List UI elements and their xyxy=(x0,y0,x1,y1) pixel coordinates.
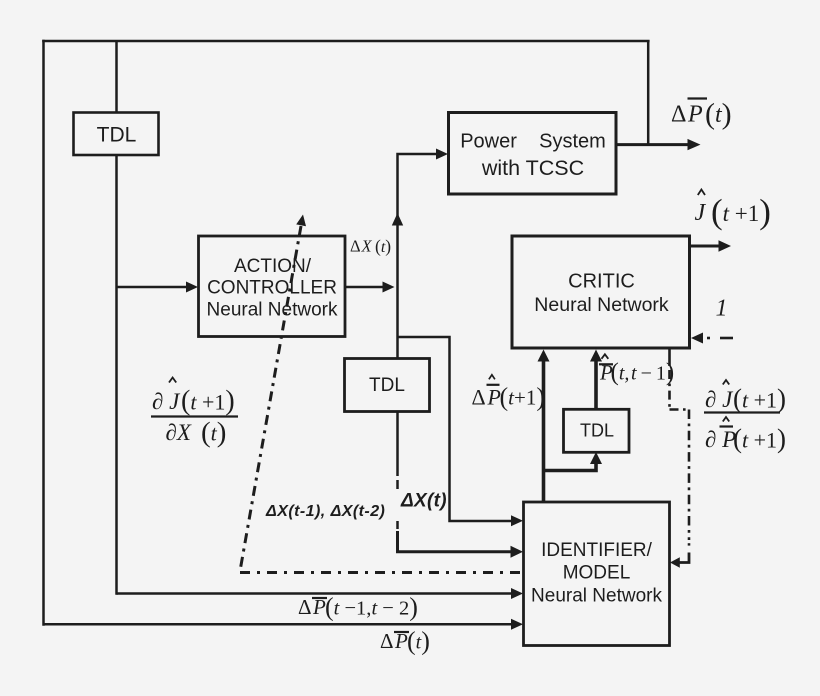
svg-text:(t −1,t − 2): (t −1,t − 2) xyxy=(325,593,418,622)
arrow into Power System xyxy=(436,149,448,160)
wire TDL2 output down (solid part) xyxy=(396,411,399,476)
arrow TDL3 output into CRITIC xyxy=(590,350,602,362)
wire TDL2 output dash b xyxy=(396,521,399,529)
svg-text:P: P xyxy=(687,102,703,128)
svg-text:(t +1): (t +1) xyxy=(733,384,786,414)
svg-text:J: J xyxy=(695,200,707,226)
wire inner-left vertical through TDL1 xyxy=(115,41,118,595)
wire DeltaP(t-1,t-2) horizontal to identifier xyxy=(117,592,515,595)
svg-text:Neural Network: Neural Network xyxy=(207,300,338,321)
wire identifier output to CRITIC xyxy=(542,354,546,502)
wire right feedback vertical xyxy=(647,41,650,145)
svg-text:(t): (t) xyxy=(705,98,732,131)
wire outer-left vertical xyxy=(42,40,45,626)
wire top feedback horizontal xyxy=(42,40,649,43)
arrowheads xyxy=(186,139,731,630)
svg-text:MODEL: MODEL xyxy=(563,563,631,584)
label J(t+1) top right xyxy=(695,190,771,232)
svg-text:(t, t − 1): (t, t − 1) xyxy=(611,359,675,386)
wire bottom DeltaP(t) horizontal to identifier xyxy=(44,623,515,626)
wire DeltaX(t) vertical riser to Power System xyxy=(398,154,440,359)
arrow into ACTION xyxy=(186,282,198,293)
arrow CRITIC output tip xyxy=(719,240,732,251)
block IDENTIFIER/MODEL Neural Network xyxy=(524,502,670,646)
svg-text:with TCSC: with TCSC xyxy=(481,156,584,180)
svg-text:CRITIC: CRITIC xyxy=(568,271,635,293)
arrow mid-riser up xyxy=(392,213,403,226)
svg-text:∂ J: ∂ J xyxy=(152,389,181,414)
arrow dash-dot into identifier right xyxy=(670,557,680,568)
arrow DeltaX(t) into identifier xyxy=(511,515,523,526)
block ACTION/CONTROLLER Neural Network xyxy=(199,236,346,337)
svg-text:∂X: ∂X xyxy=(166,420,192,445)
label DeltaX(t) at ACTION output xyxy=(350,236,391,256)
label dJ/dP fraction right xyxy=(704,380,786,454)
svg-text:TDL: TDL xyxy=(369,375,405,396)
svg-text:ΔX(t-1), ΔX(t-2): ΔX(t-1), ΔX(t-2) xyxy=(265,503,385,520)
arrow dash-dot into CRITIC right xyxy=(691,333,703,344)
wire dash-dot stub into CRITIC right xyxy=(707,337,733,340)
label P(t,t-1) estimate xyxy=(599,354,674,386)
svg-text:∂ P: ∂ P xyxy=(705,427,736,452)
svg-text:TDL: TDL xyxy=(97,124,137,147)
wire TDL2 output dash a xyxy=(396,480,399,489)
arrow dash-dot diagonal tip (up) xyxy=(296,215,306,227)
wire DeltaX(t) branch bypass to identifier xyxy=(398,337,515,521)
label DeltaP(t) bottom xyxy=(380,627,430,656)
wire Power System output xyxy=(616,143,691,146)
wire ACTION output xyxy=(345,286,383,289)
wire TDL3 output to CRITIC xyxy=(594,354,598,409)
svg-text:(t): (t) xyxy=(375,236,391,256)
svg-text:Power System: Power System xyxy=(460,131,606,153)
wire dash-dot backprop diagonal through ACTION xyxy=(240,226,523,573)
svg-text:Δ: Δ xyxy=(380,629,394,653)
arrow identifier output into CRITIC xyxy=(538,350,550,362)
arrow DeltaP(t) into identifier xyxy=(511,619,523,630)
svg-text:CONTROLLER: CONTROLLER xyxy=(207,278,337,299)
svg-text:ΔX(t): ΔX(t) xyxy=(400,491,447,512)
label DeltaP(t) top right xyxy=(671,98,732,131)
svg-text:(t): (t) xyxy=(201,417,226,449)
wire TDL2 output elbow to identifier xyxy=(398,531,514,552)
svg-text:∂ J: ∂ J xyxy=(705,387,734,412)
arrow TDL2 line into identifier xyxy=(511,546,524,558)
svg-text:(t +1): (t +1) xyxy=(733,424,786,454)
svg-text:TDL: TDL xyxy=(580,421,614,441)
arrow ACTION output xyxy=(383,282,395,293)
label DeltaP(t+1) estimate xyxy=(472,375,546,412)
svg-text:Δ: Δ xyxy=(472,384,486,409)
wire branch to TDL3 xyxy=(544,457,597,471)
block TDL1 xyxy=(74,113,159,156)
svg-text:Δ: Δ xyxy=(350,237,361,256)
arrow Power System output tip xyxy=(688,139,701,150)
label dJ/dX fraction left xyxy=(151,378,238,449)
svg-text:Δ: Δ xyxy=(298,595,312,619)
arrow DeltaP(t-1,t-2) into identifier xyxy=(511,588,523,599)
arrow into TDL3 bottom xyxy=(590,452,602,464)
wire input to ACTION network xyxy=(117,286,190,289)
svg-text:ACTION/: ACTION/ xyxy=(234,256,312,277)
svg-text:Neural Network: Neural Network xyxy=(531,586,662,607)
svg-text:(t+1): (t+1) xyxy=(500,382,546,411)
svg-text:X: X xyxy=(361,237,373,256)
svg-text:(t +1): (t +1) xyxy=(181,386,235,417)
svg-text:Neural Network: Neural Network xyxy=(534,294,669,316)
svg-text:Δ: Δ xyxy=(671,102,686,128)
svg-text:(t): (t) xyxy=(407,627,430,656)
wire dash-dot horizontal into identifier left xyxy=(240,571,523,574)
svg-text:1: 1 xyxy=(716,296,728,322)
wire dash-dot derivative path right side xyxy=(670,348,690,563)
label DeltaP(t-1,t-2) xyxy=(298,593,418,622)
block Power System with TCSC xyxy=(449,113,617,195)
block TDL2 xyxy=(345,359,430,412)
block CRITIC Neural Network xyxy=(512,236,690,348)
wire CRITIC output xyxy=(690,245,723,248)
block TDL3 xyxy=(564,409,630,452)
svg-text:IDENTIFIER/: IDENTIFIER/ xyxy=(541,540,653,561)
